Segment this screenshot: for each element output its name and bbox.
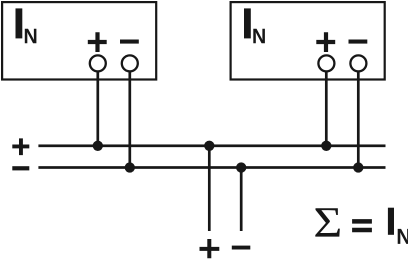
minus mark of U2 terminal — [349, 40, 368, 44]
wire top bus (+) — [38, 144, 385, 147]
minus label of output — [232, 246, 251, 250]
plus label of output — [200, 239, 220, 258]
label I of U1 — [16, 8, 23, 38]
terminal circle - of U1 — [122, 55, 138, 71]
junction dot U1 - — [125, 162, 135, 172]
label N subscript of U1 — [25, 29, 37, 43]
terminal circle + of U1 — [90, 55, 106, 71]
wire U2 - to bottom bus — [357, 71, 360, 169]
wire U2 + to top bus — [325, 71, 328, 147]
wire output + from top bus — [208, 146, 211, 231]
wire bottom bus (-) — [38, 166, 385, 169]
junction dot output - — [236, 162, 246, 172]
plus label of top bus — [12, 138, 29, 155]
terminal circle + of U2 — [318, 55, 334, 71]
wire U1 + to top bus — [96, 71, 99, 147]
box U2 (right current source) — [231, 2, 385, 79]
sigma symbol of sum formula — [315, 208, 340, 236]
label N subscript of sum formula — [398, 229, 408, 244]
box U1 (left current source) — [2, 2, 156, 79]
plus mark of U1 terminal — [88, 32, 107, 52]
wire U1 - to bottom bus — [128, 71, 131, 169]
wire output - from bottom bus — [240, 168, 243, 232]
junction dot output + — [204, 141, 214, 151]
junction dot U1 + — [93, 141, 103, 151]
plus mark of U2 terminal — [316, 32, 335, 52]
junction dot U2 + — [321, 141, 331, 151]
equals sign of sum formula — [352, 219, 372, 232]
label N subscript of U2 — [253, 29, 265, 43]
label I of sum formula — [388, 208, 394, 235]
label I of U2 — [244, 8, 251, 38]
minus mark of U1 terminal — [120, 40, 139, 44]
minus label of bottom bus — [12, 166, 29, 170]
junction dot U2 - — [353, 162, 363, 172]
terminal circle - of U2 — [350, 55, 366, 71]
